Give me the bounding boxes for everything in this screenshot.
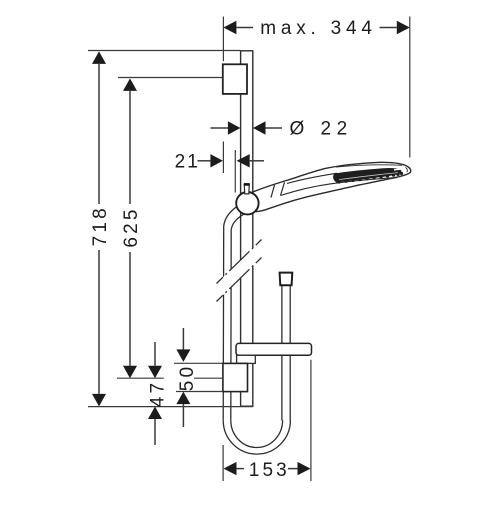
hand shower: handle + head (white fill outline)	[251, 162, 411, 211]
spray nozzles scalloped bottom	[337, 172, 403, 184]
dim 50: upper leader + arrow	[182, 328, 184, 349]
break line lower (dash-dot)	[217, 258, 262, 302]
svg-text:153: 153	[249, 460, 290, 481]
dim max344: right arrow	[397, 21, 410, 34]
dim 47: lower arrow + leader	[148, 407, 162, 420]
hose connector nut	[280, 273, 293, 286]
face plate edge lines	[287, 173, 337, 183]
dim max344: right extension line	[409, 17, 411, 158]
slider block	[223, 363, 248, 391]
dim 47/625: shared extension line at y=378	[117, 377, 164, 379]
svg-text:625: 625	[121, 206, 142, 247]
dim 718: bottom extension line	[88, 406, 253, 408]
svg-text:max. 344: max. 344	[260, 18, 377, 39]
dim 718: vertical line + arrows	[92, 51, 106, 64]
shower rail (vertical bar)	[241, 51, 253, 406]
dim 21: right extension line (to holder)	[234, 150, 236, 193]
dim 153: left arrow	[224, 462, 237, 475]
dim 718: top extension line	[88, 50, 241, 52]
dim 21: left extension line	[222, 142, 224, 174]
hose right branch (nut to U-bend)	[282, 285, 290, 420]
rail break mark (white gap)	[217, 240, 262, 302]
dim 50: top extension line	[174, 362, 223, 364]
hose U-bend at bottom	[223, 420, 290, 454]
spray face (dark)	[334, 169, 401, 182]
dim 625: top extension line	[118, 77, 223, 79]
svg-text:47: 47	[148, 380, 169, 408]
spray face white texture marks	[339, 173, 398, 180]
dim 47: upper leader + arrow	[154, 342, 156, 366]
soap dish shelf	[236, 343, 312, 355]
dim max344: left arrow	[223, 21, 236, 34]
dim 21: right arrow pointing left	[237, 154, 250, 167]
break line upper (dash-dot)	[217, 240, 262, 284]
hose left branch from holder down to U-bend	[223, 206, 244, 420]
svg-text:50: 50	[177, 364, 198, 392]
head inner top line	[336, 165, 402, 167]
dim diameter 22: left arrow	[211, 127, 229, 129]
dim diameter 22: right arrow	[253, 121, 266, 134]
dim 153: right extension line	[310, 360, 312, 481]
shelf support block	[237, 355, 256, 363]
dim 50: bottom extension line	[176, 391, 223, 393]
dim max344: left extension line	[222, 17, 224, 62]
svg-text:Ø 22: Ø 22	[290, 119, 353, 140]
dim 50: lower arrow + leader	[176, 392, 190, 405]
dim 153: right arrow	[298, 462, 311, 475]
dim 625: vertical line + arrows	[123, 78, 137, 91]
dim 153: left extension line	[222, 445, 224, 481]
svg-text:718: 718	[90, 205, 111, 246]
wall bracket (top)	[223, 64, 247, 94]
svg-text:21: 21	[175, 151, 200, 172]
holder circle	[236, 192, 258, 214]
grip band lines	[271, 185, 275, 198]
dim 21: left arrow pointing right	[198, 160, 211, 162]
holder pin	[244, 184, 249, 194]
